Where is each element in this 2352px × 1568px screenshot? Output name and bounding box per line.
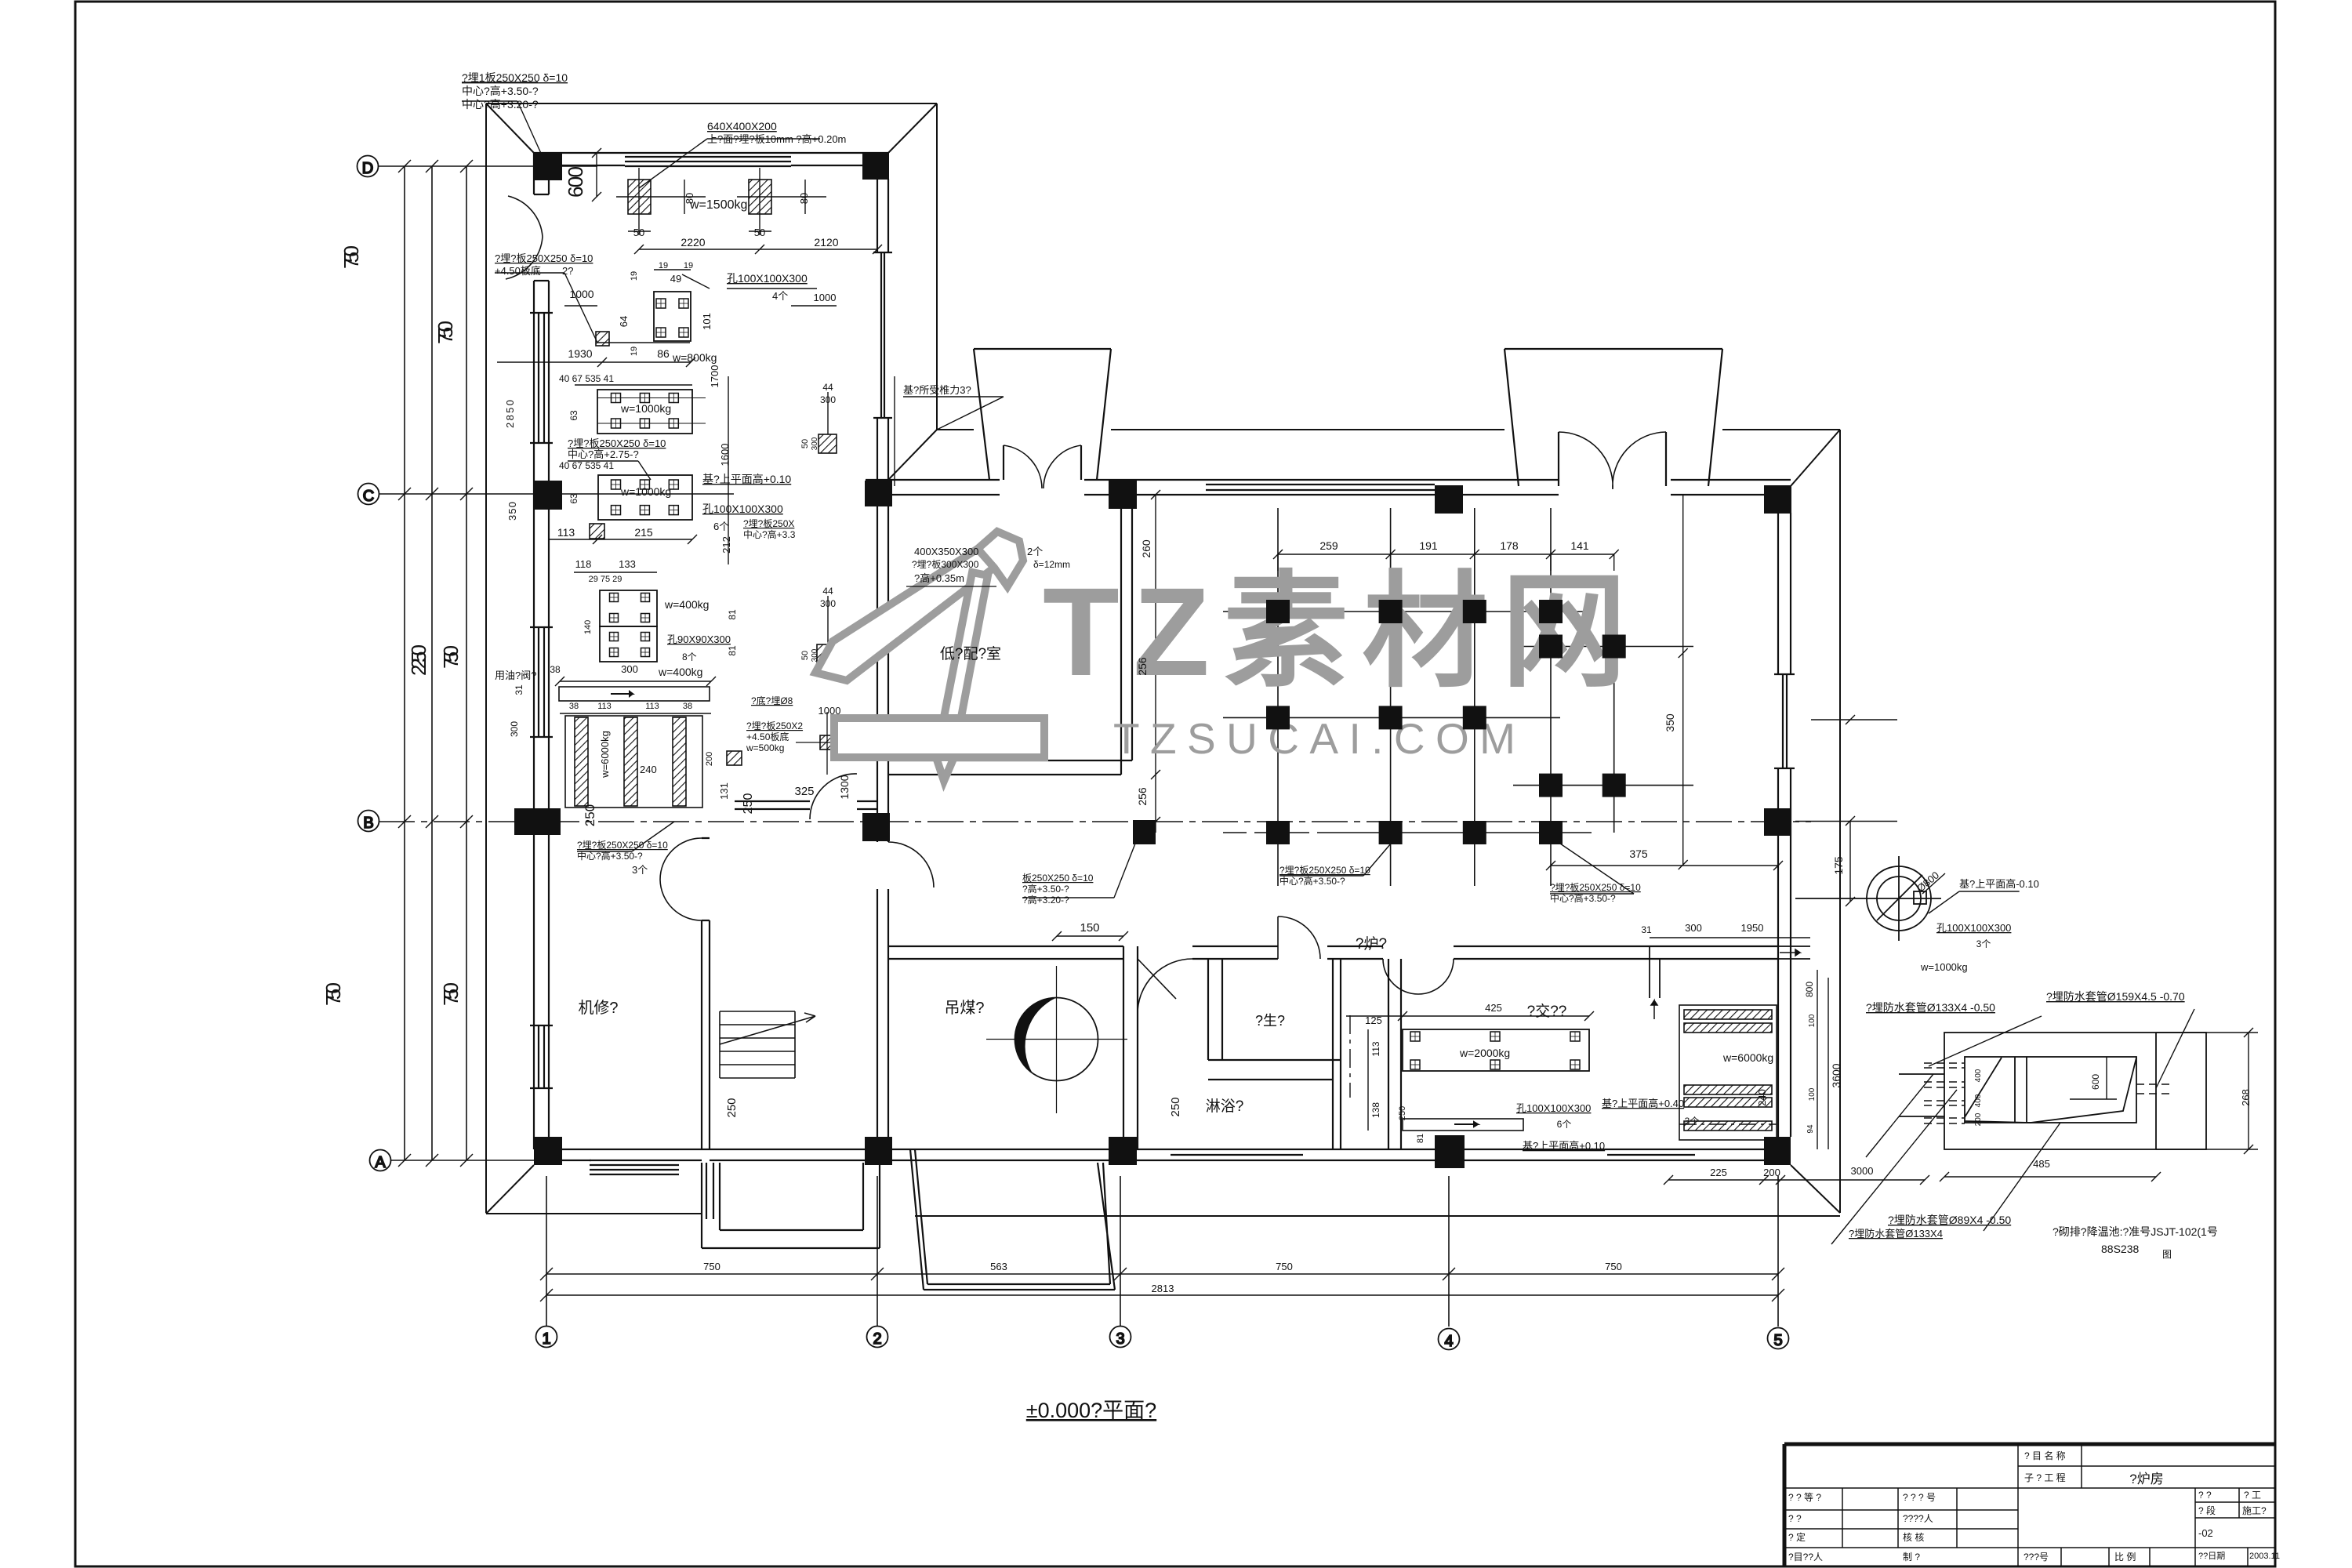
svg-text:w=1000kg: w=1000kg	[1920, 961, 1968, 973]
svg-text:81: 81	[727, 645, 738, 656]
svg-text:19: 19	[684, 261, 693, 270]
svg-text:?埋?板250X250 δ=10: ?埋?板250X250 δ=10	[495, 252, 593, 264]
svg-text:?埋1板250X250 δ=10: ?埋1板250X250 δ=10	[462, 71, 568, 84]
svg-text:300: 300	[1685, 922, 1702, 934]
logo pen beam	[815, 549, 994, 681]
svg-text:150: 150	[1080, 921, 1099, 935]
svg-text:49: 49	[670, 273, 681, 285]
svg-text:用油?阀?: 用油?阀?	[495, 670, 536, 681]
svg-text:600: 600	[564, 166, 587, 198]
svg-text:81: 81	[727, 609, 738, 620]
svg-text:1950: 1950	[1741, 922, 1764, 934]
left exterior wall col1	[533, 153, 535, 1149]
svg-text:-02: -02	[2198, 1527, 2213, 1539]
dim 1000 x2	[564, 305, 597, 307]
leaders to B foundations	[1022, 844, 1634, 898]
electrical room 低配室 right wall	[1121, 509, 1132, 775]
svg-text:?埋?板250X: ?埋?板250X	[743, 518, 794, 529]
svg-text:38: 38	[569, 702, 579, 711]
svg-text:?埋防水套管Ø133X4: ?埋防水套管Ø133X4	[1849, 1228, 1943, 1240]
svg-text:?生?: ?生?	[1255, 1013, 1285, 1029]
door to coal room	[1138, 959, 1192, 1014]
eaves bottom	[486, 1213, 702, 1214]
svg-text:中心?高+3.3: 中心?高+3.3	[743, 528, 796, 540]
svg-text:4: 4	[1444, 1333, 1453, 1350]
svg-text:750: 750	[434, 321, 457, 344]
svg-text:81: 81	[1416, 1134, 1425, 1143]
svg-text:6个: 6个	[1557, 1119, 1572, 1130]
svg-text:核 核: 核 核	[1903, 1532, 1924, 1543]
svg-text:63: 63	[568, 410, 579, 421]
hatch pad small 2 (row C)	[590, 524, 604, 539]
svg-text:31: 31	[1641, 924, 1652, 935]
hall top window	[1206, 479, 1435, 481]
svg-text:750: 750	[321, 982, 345, 1006]
svg-text:中心?高+2.75-?: 中心?高+2.75-?	[568, 448, 639, 460]
svg-text:1000: 1000	[818, 705, 841, 717]
grid line B (dash-dot)	[379, 821, 1811, 822]
equipment w=400kg double	[600, 590, 657, 626]
structural columns (black)	[514, 152, 1791, 1168]
duct trapezoid 1	[974, 349, 1111, 480]
leader +4.50 note	[495, 273, 597, 343]
dim 375	[1551, 865, 1778, 866]
svg-text:260: 260	[1140, 539, 1152, 558]
column 3 at hall top	[1109, 481, 1137, 509]
window A wall 1 (steps)	[590, 1160, 679, 1161]
svg-text:2120: 2120	[814, 236, 838, 249]
svg-text:3个: 3个	[1976, 938, 1991, 949]
foundation connector lines	[1223, 508, 1693, 886]
svg-text:1000: 1000	[814, 292, 837, 303]
coal room right wall 淋浴 left	[1123, 946, 1138, 1149]
svg-text:118: 118	[575, 558, 592, 570]
grid bubbles	[358, 156, 1789, 1351]
svg-text:机修?: 机修?	[578, 999, 618, 1017]
svg-text:中心?高+3.50-?: 中心?高+3.50-?	[462, 85, 539, 97]
dims 113/215 under C pads	[549, 539, 692, 540]
svg-text:孔100X100X300: 孔100X100X300	[702, 503, 783, 515]
svg-text:268: 268	[2240, 1089, 2252, 1106]
svg-text:?埋?板250X250 δ=10: ?埋?板250X250 δ=10	[1279, 865, 1370, 876]
svg-text:50: 50	[800, 651, 810, 660]
duct trapezoid 2	[1504, 349, 1722, 486]
svg-text:113: 113	[1370, 1041, 1381, 1056]
window top wall	[625, 156, 791, 158]
wall col2 (D to A)	[877, 179, 878, 1149]
svg-text:中心?高+3.50-?: 中心?高+3.50-?	[1279, 875, 1345, 887]
svg-text:300: 300	[509, 721, 520, 737]
svg-text:3个: 3个	[632, 864, 648, 876]
boiler foundation pad F10	[1539, 774, 1563, 797]
svg-text:63: 63	[568, 493, 579, 504]
svg-text:?炉房: ?炉房	[2129, 1472, 2163, 1486]
svg-text:???号: ???号	[2024, 1552, 2049, 1563]
svg-text:80: 80	[798, 193, 810, 204]
svg-text:750: 750	[339, 245, 363, 269]
svg-text:325: 325	[794, 785, 814, 798]
equipment w=1000kg no.1	[597, 390, 692, 434]
leader flange	[1929, 891, 2019, 913]
svg-text:425: 425	[1485, 1002, 1502, 1014]
column A3	[1109, 1137, 1137, 1165]
svg-text:?高+3.20-?: ?高+3.20-?	[1022, 894, 1069, 906]
equipment w=2000kg	[1403, 1029, 1589, 1071]
svg-text:250: 250	[1169, 1097, 1182, 1116]
column B1	[514, 808, 561, 835]
svg-text:750: 750	[1605, 1261, 1622, 1272]
grid line C	[379, 493, 734, 495]
dims exchange room	[1346, 1015, 1589, 1017]
column 2 at hall top	[865, 481, 892, 506]
svg-text:86: 86	[657, 347, 670, 360]
svg-text:100: 100	[1808, 1014, 1817, 1027]
svg-text:1700: 1700	[709, 365, 720, 388]
boiler foundation pad F11	[1602, 774, 1626, 797]
svg-text:6个: 6个	[713, 521, 729, 532]
svg-text:w=1000kg: w=1000kg	[620, 402, 671, 415]
stair lobby wall with door	[735, 801, 878, 809]
svg-text:C: C	[363, 488, 374, 505]
svg-text:?埋?板250X250 δ=10: ?埋?板250X250 δ=10	[1550, 882, 1641, 893]
svg-text:300: 300	[621, 663, 638, 675]
dims 225 200 3000 bottom	[1668, 1179, 1925, 1181]
svg-text:133: 133	[619, 558, 636, 570]
dims 118 133 w400	[574, 572, 657, 573]
door in col2 wall to coal strip	[888, 842, 934, 887]
column A5	[1764, 1137, 1791, 1165]
column B5	[1764, 808, 1791, 836]
column B2	[862, 813, 890, 841]
bottom dim chain lines	[546, 1273, 1778, 1275]
svg-text:w=2000kg: w=2000kg	[1459, 1047, 1510, 1059]
boiler foundation pad F9	[1463, 706, 1486, 729]
leader top B1	[577, 822, 674, 851]
svg-text:孔90X90X300: 孔90X90X300	[667, 633, 731, 645]
logo hook	[978, 532, 1023, 586]
eaves left line	[485, 103, 487, 1213]
boiler foundation pad F15	[1539, 821, 1563, 844]
svg-text:140: 140	[583, 620, 593, 634]
dim 600 (top-left)	[596, 153, 597, 197]
equipment w=6000kg (left) 3 hatched bars	[575, 717, 588, 806]
column D2	[862, 152, 889, 180]
pipe trench bar	[559, 687, 710, 701]
svg-text:δ=12mm: δ=12mm	[1033, 559, 1070, 570]
svg-text:中心?高+3.50-?: 中心?高+3.50-?	[1550, 892, 1616, 904]
svg-text:485: 485	[2033, 1158, 2050, 1170]
svg-text:3: 3	[1116, 1330, 1124, 1348]
svg-text:子 ? 工 程: 子 ? 工 程	[2024, 1472, 2066, 1483]
coal hole circle with crescent	[1015, 998, 1098, 1081]
svg-text:40 67 535 41: 40 67 535 41	[559, 460, 614, 471]
svg-text:施工?: 施工?	[2242, 1505, 2267, 1516]
svg-text:400: 400	[1974, 1094, 1983, 1107]
grid line D	[378, 165, 597, 167]
svg-text:2813: 2813	[1152, 1283, 1174, 1294]
svg-text:50: 50	[800, 439, 810, 448]
svg-text:138: 138	[1370, 1102, 1381, 1118]
svg-text:2250: 2250	[407, 644, 430, 676]
watermark logo + text	[815, 532, 1627, 781]
dim 485/268 pool	[1944, 1176, 2156, 1178]
svg-text:中心?高+3.50-?: 中心?高+3.50-?	[577, 850, 643, 862]
cooling pool detail (right)	[1899, 1033, 2206, 1149]
column A4	[1435, 1135, 1465, 1168]
boiler foundation pad F8	[1379, 706, 1403, 729]
svg-text:200: 200	[1974, 1112, 1983, 1126]
svg-text:B: B	[363, 815, 373, 832]
dims 38 113 113 38	[560, 713, 711, 714]
svg-text:w=500kg: w=500kg	[746, 742, 784, 753]
dims 44/300 pads	[827, 392, 829, 434]
svg-text:?埋?板300X300: ?埋?板300X300	[912, 559, 979, 570]
svg-text:38: 38	[683, 702, 692, 711]
svg-text:低?配?室: 低?配?室	[940, 645, 1001, 662]
svg-text:750: 750	[439, 982, 463, 1006]
svg-text:+4.50板底: +4.50板底	[495, 265, 541, 277]
svg-text:212: 212	[720, 536, 732, 554]
hall door 2 (double)	[1559, 432, 1666, 486]
equipment w=1000kg no.2	[598, 475, 692, 520]
svg-text:256: 256	[1136, 787, 1149, 806]
column A1	[534, 1137, 562, 1165]
stair steps	[720, 1011, 815, 1078]
svg-text:板250X250 δ=10: 板250X250 δ=10	[1022, 873, 1094, 884]
flange circle detail	[1795, 856, 1941, 941]
svg-text:113: 113	[597, 702, 612, 711]
svg-text:w=400kg: w=400kg	[658, 666, 702, 678]
svg-text:1600: 1600	[719, 444, 731, 466]
hall main door (double)	[1004, 445, 1081, 480]
left extension lines	[404, 166, 405, 1160]
grid stems 1-5	[546, 1176, 547, 1327]
svg-text:2个: 2个	[1027, 546, 1043, 557]
svg-text:孔100X100X300: 孔100X100X300	[727, 272, 808, 285]
dims right chain 800/100/3600/100/94	[1817, 970, 1818, 1149]
svg-text:? ?: ? ?	[2198, 1490, 2212, 1501]
left dim chain ticks	[398, 160, 411, 172]
svg-text:? 段: ? 段	[2198, 1504, 2216, 1516]
svg-text:8个: 8个	[682, 652, 697, 662]
svg-text:50: 50	[754, 227, 765, 238]
window left wall 2	[538, 627, 539, 737]
svg-text:400: 400	[1974, 1069, 1983, 1082]
svg-text:2: 2	[873, 1330, 881, 1348]
electrical room bottom wall	[888, 760, 1132, 775]
dim 175 (right)	[1849, 821, 1851, 902]
toilet room walls	[1208, 959, 1341, 1149]
svg-text:? 定: ? 定	[1788, 1531, 1806, 1543]
svg-text:w=400kg: w=400kg	[664, 598, 709, 611]
equipment w=800kg	[654, 292, 691, 341]
dim 1000 near C	[597, 342, 690, 343]
boiler foundation pad F13	[1379, 821, 1403, 844]
svg-text:38: 38	[550, 664, 561, 675]
boiler foundation pad F4	[1539, 600, 1563, 623]
leader 640X400X200	[639, 139, 820, 188]
dims 50 under pads	[628, 230, 651, 232]
svg-text:?交??: ?交??	[1527, 1003, 1567, 1020]
svg-text:400X350X300: 400X350X300	[914, 546, 978, 557]
hatch pad near hall 1	[818, 434, 837, 453]
svg-text:w=6000kg: w=6000kg	[599, 731, 611, 779]
svg-text:640X400X200: 640X400X200	[707, 120, 777, 132]
svg-text:250: 250	[725, 1098, 739, 1117]
svg-text:1300: 1300	[838, 775, 851, 799]
svg-text:w=6000kg: w=6000kg	[1722, 1051, 1773, 1064]
svg-text:孔100X100X300: 孔100X100X300	[1936, 922, 2011, 934]
svg-text:+4.50板底: +4.50板底	[746, 731, 789, 742]
dims 260/256/256	[1682, 495, 1684, 653]
svg-text:175: 175	[1832, 856, 1845, 875]
hatch pad near hall 2	[817, 644, 837, 665]
dim 300 bar	[560, 681, 711, 682]
svg-text:94: 94	[1806, 1124, 1815, 1134]
svg-text:125: 125	[1365, 1014, 1382, 1026]
svg-text:375: 375	[1629, 848, 1648, 860]
svg-text:259: 259	[1319, 539, 1338, 552]
svg-text:300: 300	[820, 394, 836, 405]
door to toilet	[1278, 916, 1320, 959]
eaves right	[1839, 430, 1841, 1213]
boiler foundation pad F6	[1602, 635, 1626, 659]
door top-left block	[534, 194, 549, 281]
column 5 top corner	[1764, 485, 1791, 514]
boiler foundation pad F5	[1539, 635, 1563, 659]
eaves hall top	[937, 429, 974, 430]
svg-text:?砌排?降温池:?准号JSJT-102(1号: ?砌排?降温池:?准号JSJT-102(1号	[2053, 1225, 2218, 1238]
svg-text:?埋?板250X250 δ=10: ?埋?板250X250 δ=10	[577, 840, 668, 851]
svg-text:300: 300	[811, 648, 819, 662]
svg-text:基?上平面高+0.10: 基?上平面高+0.10	[1523, 1140, 1605, 1152]
svg-text:131: 131	[718, 782, 730, 800]
door to exchange room (double)	[1383, 959, 1454, 994]
svg-text:2220: 2220	[681, 236, 705, 249]
svg-text:80: 80	[684, 193, 695, 204]
dim extension dashed (125)	[1349, 1015, 1351, 1098]
svg-text:TZSUCAI.COM: TZSUCAI.COM	[1113, 714, 1523, 763]
svg-text:250: 250	[1398, 1106, 1407, 1120]
equipment w=6000kg (left) outer rect	[565, 716, 702, 808]
leaders pool texts	[1831, 1074, 1957, 1244]
svg-text:600: 600	[2090, 1074, 2101, 1090]
column B shower wall	[1133, 820, 1156, 844]
hall foundation dim line	[1278, 554, 1614, 555]
hall right wall col5	[1778, 495, 1791, 1149]
svg-text:?埋?板250X2: ?埋?板250X2	[746, 720, 803, 731]
svg-text:基?上平面高+0.10: 基?上平面高+0.10	[702, 473, 791, 485]
svg-text:2?: 2?	[562, 265, 573, 277]
svg-text:A: A	[375, 1154, 386, 1171]
svg-text:200: 200	[1763, 1167, 1780, 1178]
equipment w=1500kg pad 2	[749, 180, 771, 214]
svg-text:±0.000?平面?: ±0.000?平面?	[1026, 1399, 1156, 1422]
logo vertical pen	[936, 572, 988, 781]
svg-text:19: 19	[630, 347, 639, 356]
svg-text:3600: 3600	[1830, 1063, 1842, 1087]
svg-text:孔100X100X300: 孔100X100X300	[1516, 1102, 1591, 1114]
title block	[1784, 1444, 2275, 1566]
dims 2220/2120 top	[639, 249, 877, 250]
exchange room left wall	[1388, 959, 1401, 1149]
window A wall 2	[1171, 1154, 1303, 1156]
svg-text:350: 350	[1664, 713, 1676, 732]
dim 80 beside pads	[684, 180, 685, 214]
boiler foundation pad F7	[1266, 706, 1290, 729]
window col2 wall	[880, 252, 882, 418]
svg-text:?高+0.35m: ?高+0.35m	[914, 572, 964, 584]
svg-text:基?所受椎力3?: 基?所受椎力3?	[903, 384, 971, 396]
porch walls	[702, 1163, 880, 1248]
svg-text:100: 100	[1808, 1087, 1817, 1101]
dims 40 67 535 41 upper	[575, 384, 692, 386]
svg-text:1930: 1930	[568, 347, 592, 360]
svg-text:240: 240	[1756, 1089, 1768, 1106]
boiler foundation pad F12	[1266, 821, 1290, 844]
svg-text:44: 44	[822, 586, 833, 597]
hip diagonal at hall NW corner	[888, 430, 937, 480]
svg-text:256: 256	[1136, 657, 1149, 676]
svg-text:中心?高+3.20-?: 中心?高+3.20-?	[462, 98, 539, 111]
svg-text:w=1000kg: w=1000kg	[620, 485, 671, 498]
svg-text:?埋防水套管Ø133X4 -0.50: ?埋防水套管Ø133X4 -0.50	[1866, 1001, 1995, 1014]
equipment w=6000kg (right) hatched bars	[1679, 1005, 1777, 1140]
svg-text:w=1500kg: w=1500kg	[689, 198, 747, 212]
svg-text:750: 750	[1276, 1261, 1293, 1272]
svg-text:?埋防水套管Ø89X4 -0.50: ?埋防水套管Ø89X4 -0.50	[1888, 1214, 2011, 1226]
grid line A	[390, 1160, 538, 1161]
svg-text:31: 31	[514, 684, 524, 695]
duct L to hall	[1650, 946, 1810, 998]
left equip leader C	[568, 461, 651, 480]
door stair room (double, swings left)	[660, 838, 702, 920]
logo base rectangle	[834, 718, 1044, 757]
svg-text:淋浴?: 淋浴?	[1206, 1098, 1244, 1115]
svg-text:800: 800	[1804, 982, 1815, 997]
hatch pad small 1	[596, 332, 609, 346]
svg-text:50: 50	[633, 227, 644, 238]
svg-text:240: 240	[640, 764, 657, 775]
svg-text:??日期: ??日期	[2198, 1551, 2225, 1561]
svg-text:5: 5	[1773, 1332, 1782, 1349]
svg-text:300: 300	[820, 598, 836, 609]
svg-text:350: 350	[506, 502, 518, 521]
svg-text:191: 191	[1419, 539, 1438, 552]
hall bottom wall	[888, 946, 1778, 959]
column A2	[865, 1137, 892, 1165]
svg-text:88S238: 88S238	[2101, 1243, 2139, 1255]
svg-text:?炉?: ?炉?	[1356, 935, 1387, 953]
svg-text:250: 250	[583, 804, 597, 826]
boiler foundation pad F14	[1463, 821, 1486, 844]
svg-text:750: 750	[439, 645, 463, 669]
svg-text:225: 225	[1710, 1167, 1727, 1178]
window A wall 3	[1607, 1154, 1695, 1156]
partition wall 机修/stair x895	[702, 838, 710, 1149]
porch entry threshold	[815, 1160, 894, 1161]
svg-text:1000: 1000	[569, 288, 593, 300]
boiler foundation pad F2	[1379, 600, 1403, 623]
svg-text:制 ?: 制 ?	[1903, 1552, 1920, 1563]
svg-text:44: 44	[822, 382, 833, 393]
svg-text:141: 141	[1570, 539, 1589, 552]
svg-text:19: 19	[630, 271, 639, 281]
svg-text:????人: ????人	[1903, 1513, 1933, 1524]
window left wall 1	[538, 313, 539, 443]
svg-text:40 67 535 41: 40 67 535 41	[559, 373, 614, 384]
column C1	[534, 481, 562, 510]
